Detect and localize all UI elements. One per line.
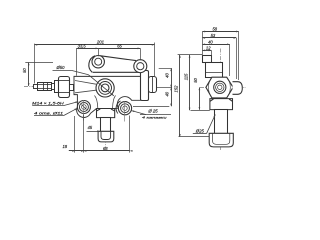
side plate right [141,71,149,101]
right view side tab [233,82,243,95]
centerline right view vertical [220,49,222,151]
centerline bottom stem axis [105,78,107,148]
central boss circles [96,79,114,97]
leader diameter 50 [53,65,114,96]
svg-text:4 отв. Ø11: 4 отв. Ø11 [34,110,63,115]
svg-text:50: 50 [193,78,198,83]
svg-text:Ø 25: Ø 25 [147,108,158,113]
dimension 201 [35,40,155,84]
svg-text:58: 58 [212,27,217,32]
bottom-left boss [77,101,90,114]
right view boss circles [214,81,226,93]
svg-text:45: 45 [87,125,92,130]
left stem threaded section [37,82,51,90]
svg-text:18: 18 [62,144,67,149]
dimension 40 upper [157,68,172,106]
dimension 45 callout [87,125,100,132]
dimension 12 [202,32,211,62]
dimension 65 [98,44,140,61]
leader diameter 25 note [132,107,172,120]
svg-text:68: 68 [103,146,108,151]
mounting lug right [134,60,147,73]
dimension 115 [183,55,209,111]
dimension 33,5 [76,44,98,76]
port cone lines [75,81,96,93]
svg-text:201: 201 [96,40,105,45]
svg-text:40: 40 [164,91,169,96]
saddle fillet right [113,96,116,109]
boss centerline stub right [124,101,126,121]
leader diameter 25 right view [193,115,216,134]
right view neck [205,63,223,78]
right view port stub [203,56,212,63]
dimension 18 [62,115,132,153]
right view barb inner [213,133,230,144]
mounting lug left [89,56,105,73]
left neck to body [70,85,74,91]
bottom-right boss [116,101,132,115]
dimension 68 [103,116,130,153]
bottom stem nut [97,109,115,118]
dimension 40 top [202,39,229,76]
svg-text:40: 40 [164,73,169,78]
dimension 58 [202,27,238,81]
dimension 40 lower [164,91,172,106]
dimension 50 right [193,78,200,110]
leader 4 holes diam 11 [34,108,77,115]
leader M14 thread [32,101,78,106]
svg-text:Ø25: Ø25 [195,128,205,133]
svg-text:Ø50: Ø50 [56,65,66,70]
bottom stem barb flange [98,131,114,142]
left stem square tip [34,85,38,89]
flange plate bottom edge [93,71,141,73]
right view barb flange [209,133,233,147]
centerline left stem axis [24,86,80,88]
dimension 152 [174,55,210,137]
left hex nut [58,77,69,98]
right view hex chamfer arcs [209,81,231,93]
svg-text:152: 152 [174,85,179,93]
bottom stem cylinder [101,118,111,132]
svg-text:50: 50 [22,68,27,73]
right view bottom nut [210,99,233,110]
left stem neck [52,84,55,90]
dimension 53 [202,33,236,79]
valve body main block [74,76,141,117]
right view hex [206,77,233,98]
svg-text:40: 40 [208,39,213,44]
right view cylinder [215,110,228,134]
svg-text:M14 × 1,5-6H: M14 × 1,5-6H [32,101,64,106]
svg-text:12: 12 [206,46,211,51]
left stem washer [55,81,59,93]
boss centerline stub left [83,100,85,121]
saddle fillet left [95,96,98,109]
svg-text:115: 115 [183,73,188,80]
svg-text:65: 65 [117,44,122,49]
flange plate top edge [100,56,136,61]
svg-text:4 канавки: 4 канавки [142,116,167,120]
centerline right view horizontal [200,87,246,89]
dimension 50 left [22,63,53,86]
barb inner detail [101,131,111,139]
side tab right [149,77,157,93]
